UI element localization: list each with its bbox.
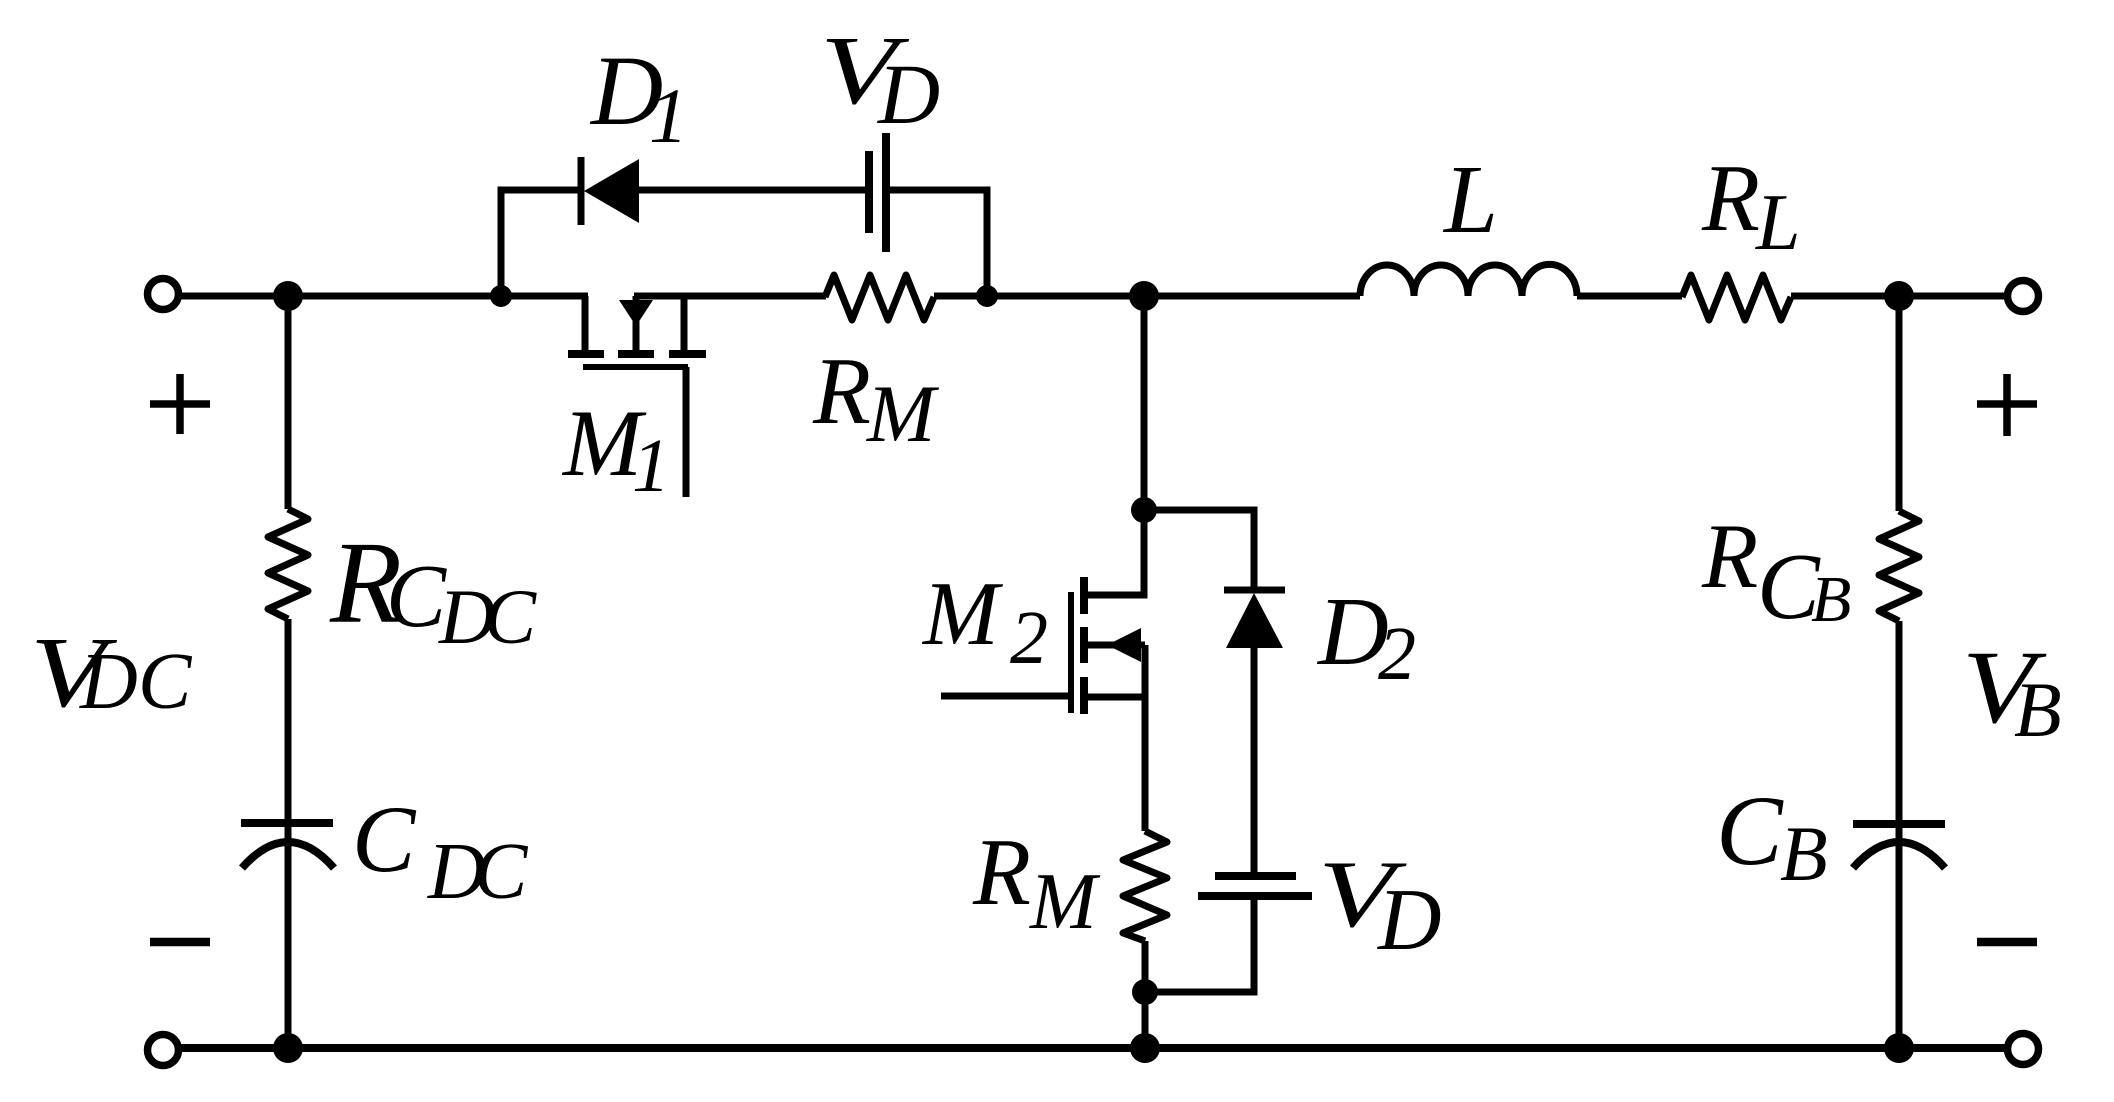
svg-text:M: M [921, 563, 1003, 664]
svg-text:B: B [2014, 666, 2062, 753]
svg-text:C: C [1716, 775, 1784, 886]
svg-text:M: M [866, 368, 940, 459]
svg-text:2: 2 [1378, 612, 1416, 696]
svg-text:B: B [1811, 563, 1851, 636]
svg-text:2: 2 [1010, 596, 1048, 680]
svg-text:R: R [1701, 145, 1760, 251]
svg-text:C: C [474, 828, 529, 916]
svg-text:C: C [484, 573, 537, 660]
svg-text:1: 1 [632, 424, 670, 508]
svg-text:L: L [1755, 179, 1801, 267]
svg-text:L: L [1442, 146, 1498, 253]
svg-text:R: R [972, 819, 1031, 925]
svg-text:C: C [138, 638, 193, 726]
svg-text:C: C [352, 786, 417, 892]
svg-text:M: M [1029, 858, 1101, 946]
svg-text:C: C [386, 547, 447, 646]
svg-text:1: 1 [649, 72, 688, 159]
svg-text:D: D [79, 638, 138, 726]
svg-text:D: D [1377, 872, 1442, 969]
svg-text:D: D [877, 46, 940, 142]
svg-text:R: R [812, 338, 871, 444]
svg-text:B: B [1780, 810, 1828, 897]
svg-text:R: R [1701, 505, 1758, 607]
